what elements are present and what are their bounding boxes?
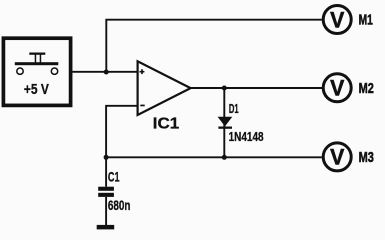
svg-text:M1: M1 [359, 13, 373, 29]
svg-text:V: V [330, 76, 345, 101]
svg-text:C1: C1 [108, 169, 120, 184]
svg-text:M3: M3 [359, 150, 374, 166]
svg-text:D1: D1 [229, 102, 239, 116]
svg-text:M2: M2 [359, 81, 374, 97]
svg-text:V: V [330, 7, 345, 32]
svg-text:680n: 680n [108, 198, 131, 213]
svg-text:+5 V: +5 V [24, 82, 49, 98]
svg-text:V: V [330, 145, 345, 170]
svg-text:IC1: IC1 [153, 116, 180, 133]
svg-text:1N4148: 1N4148 [229, 129, 264, 144]
